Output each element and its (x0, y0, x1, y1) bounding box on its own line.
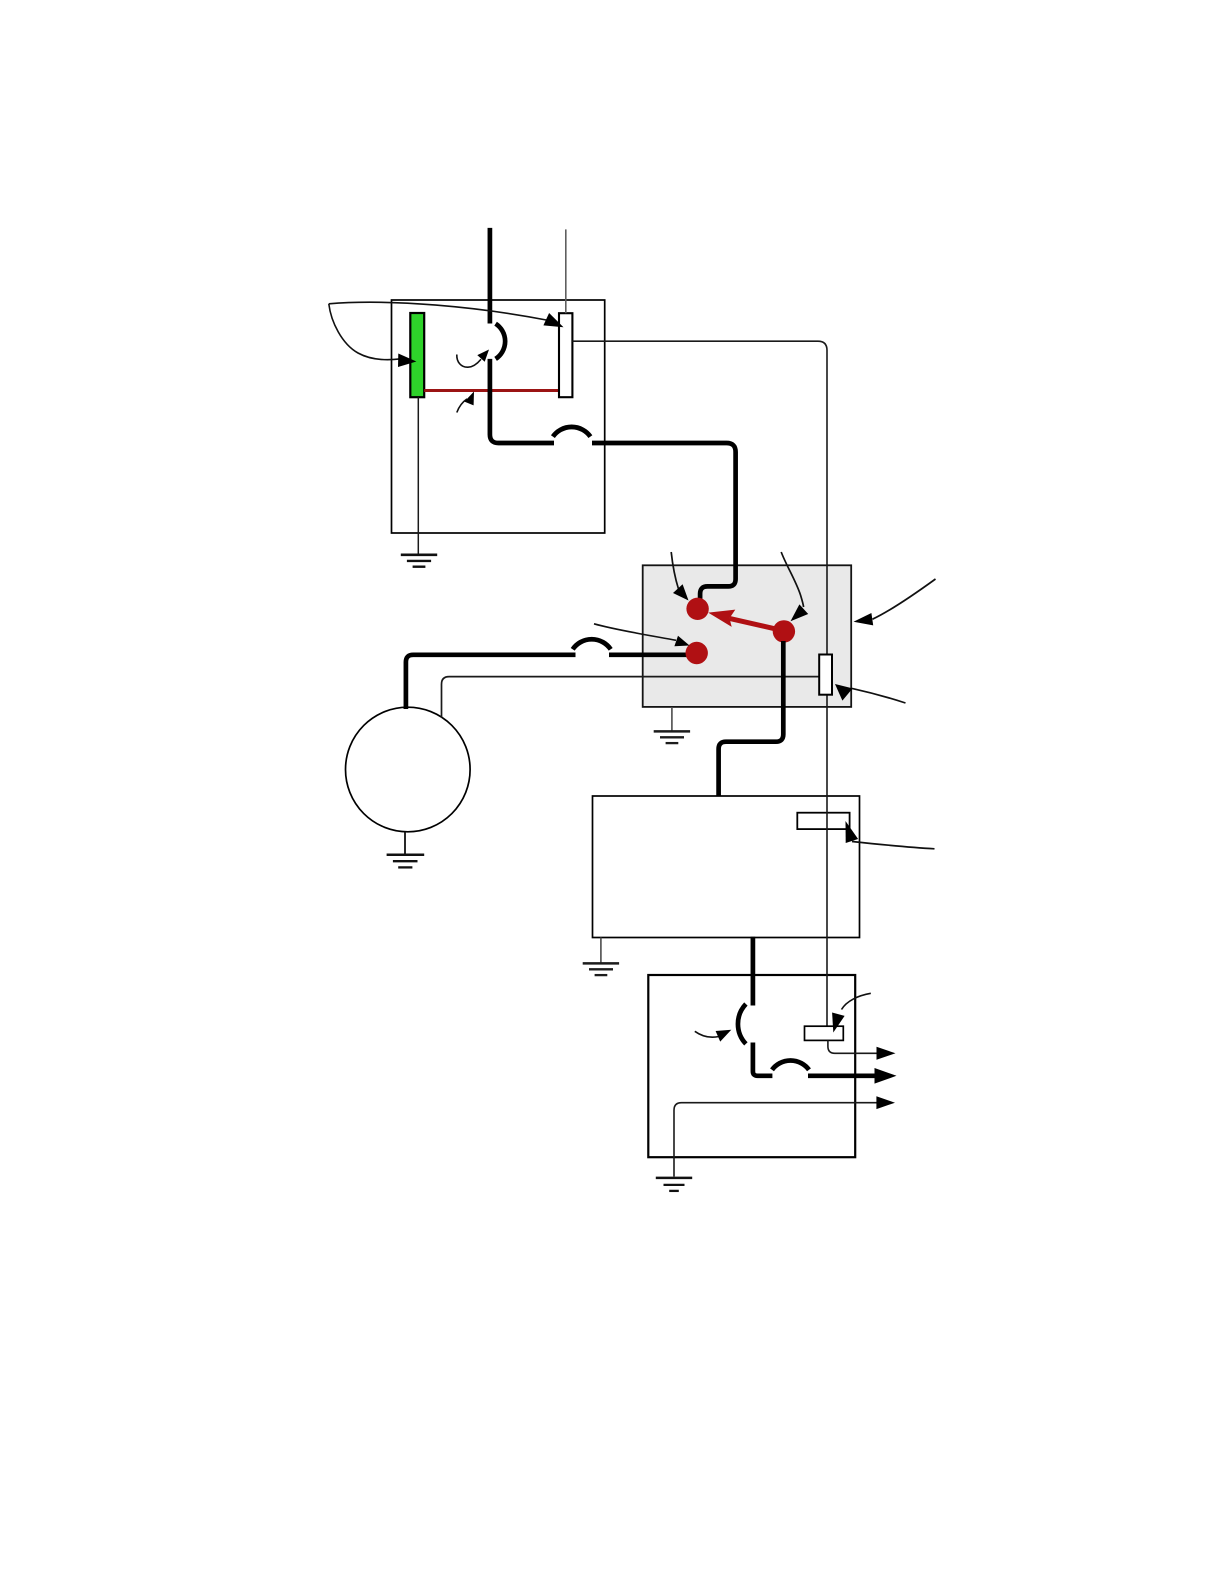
wire: long thin line C1 to lower boxes (572, 341, 827, 1026)
callout arrow to connector C3 (846, 821, 935, 849)
wire: thick lower segment with bend (753, 1043, 773, 1076)
ground (below washer switch box) (401, 555, 437, 567)
contact strip (dark red) (424, 389, 559, 392)
indicator bar (green) (410, 313, 424, 397)
wire: thick supply lower segment with bend (490, 359, 554, 443)
wire: green bar to ground (417, 397, 419, 554)
connector C3 (ECU terminal) (797, 813, 849, 829)
wire: thin ground output with arrow (674, 1096, 895, 1176)
ground (below output box) (656, 1178, 692, 1191)
callout arrow to wire crossover (output box) (695, 1030, 732, 1042)
wire hop (washer box output) (553, 427, 591, 437)
callout arrow to relay box (854, 579, 936, 625)
wire: thin output from C4 with arrow (828, 1040, 896, 1059)
callout arrow to contact strip (457, 392, 474, 413)
motor M (circle) (346, 707, 471, 832)
callout arrow to relay upper-left contact (671, 552, 688, 601)
ground (below relay box, gray) (654, 707, 690, 743)
callout arrow to connector C4 (832, 993, 871, 1032)
switch blade (dark red arrow) (708, 610, 781, 631)
wire crossover (vertical hop in washer box) (496, 324, 506, 359)
contact point (relay lower-left) (686, 642, 708, 664)
ground (below motor) (387, 832, 425, 868)
wire: gray feed into connector C1 (565, 229, 567, 313)
callout arrow to connector C2 (835, 684, 906, 703)
wire hop (motor feed) (573, 639, 611, 649)
callout arrow to relay common contact (781, 552, 808, 621)
wire: thin sense line from motor (442, 677, 820, 718)
connector C2 (relay box terminal) (819, 655, 832, 695)
component box: washer switch assembly (392, 300, 605, 533)
callout arrow to wire crossover (washer box) (457, 350, 489, 368)
contact point (relay right, common) (773, 620, 795, 642)
wire hop (output) (772, 1060, 809, 1069)
callout arrow to connector C1 (329, 302, 564, 327)
connector C1 (tall white) (559, 313, 572, 397)
callout arrow to green bar (329, 304, 417, 367)
ground (below ECU, gray) (583, 938, 619, 976)
connector C4 (output box terminal) (805, 1026, 844, 1040)
contact point (relay upper-left) (686, 598, 708, 620)
relay box (gray) (643, 565, 852, 707)
wire: thick relay common to ECU (719, 641, 784, 797)
wire: thick output with arrow (808, 1068, 897, 1084)
callout arrow to relay lower-left contact (594, 624, 690, 646)
wire: thick into relay lower contact (609, 652, 690, 657)
ECU box (593, 796, 860, 938)
output box (wiper control) (648, 975, 855, 1157)
wire: thick motor feed (406, 655, 576, 709)
wire: thick ECU to output box (751, 937, 756, 1006)
wire: thick to relay upper contact (592, 443, 736, 599)
wire crossover (vertical hop in output box) (738, 1004, 746, 1044)
wire: thick supply from top (488, 228, 493, 324)
